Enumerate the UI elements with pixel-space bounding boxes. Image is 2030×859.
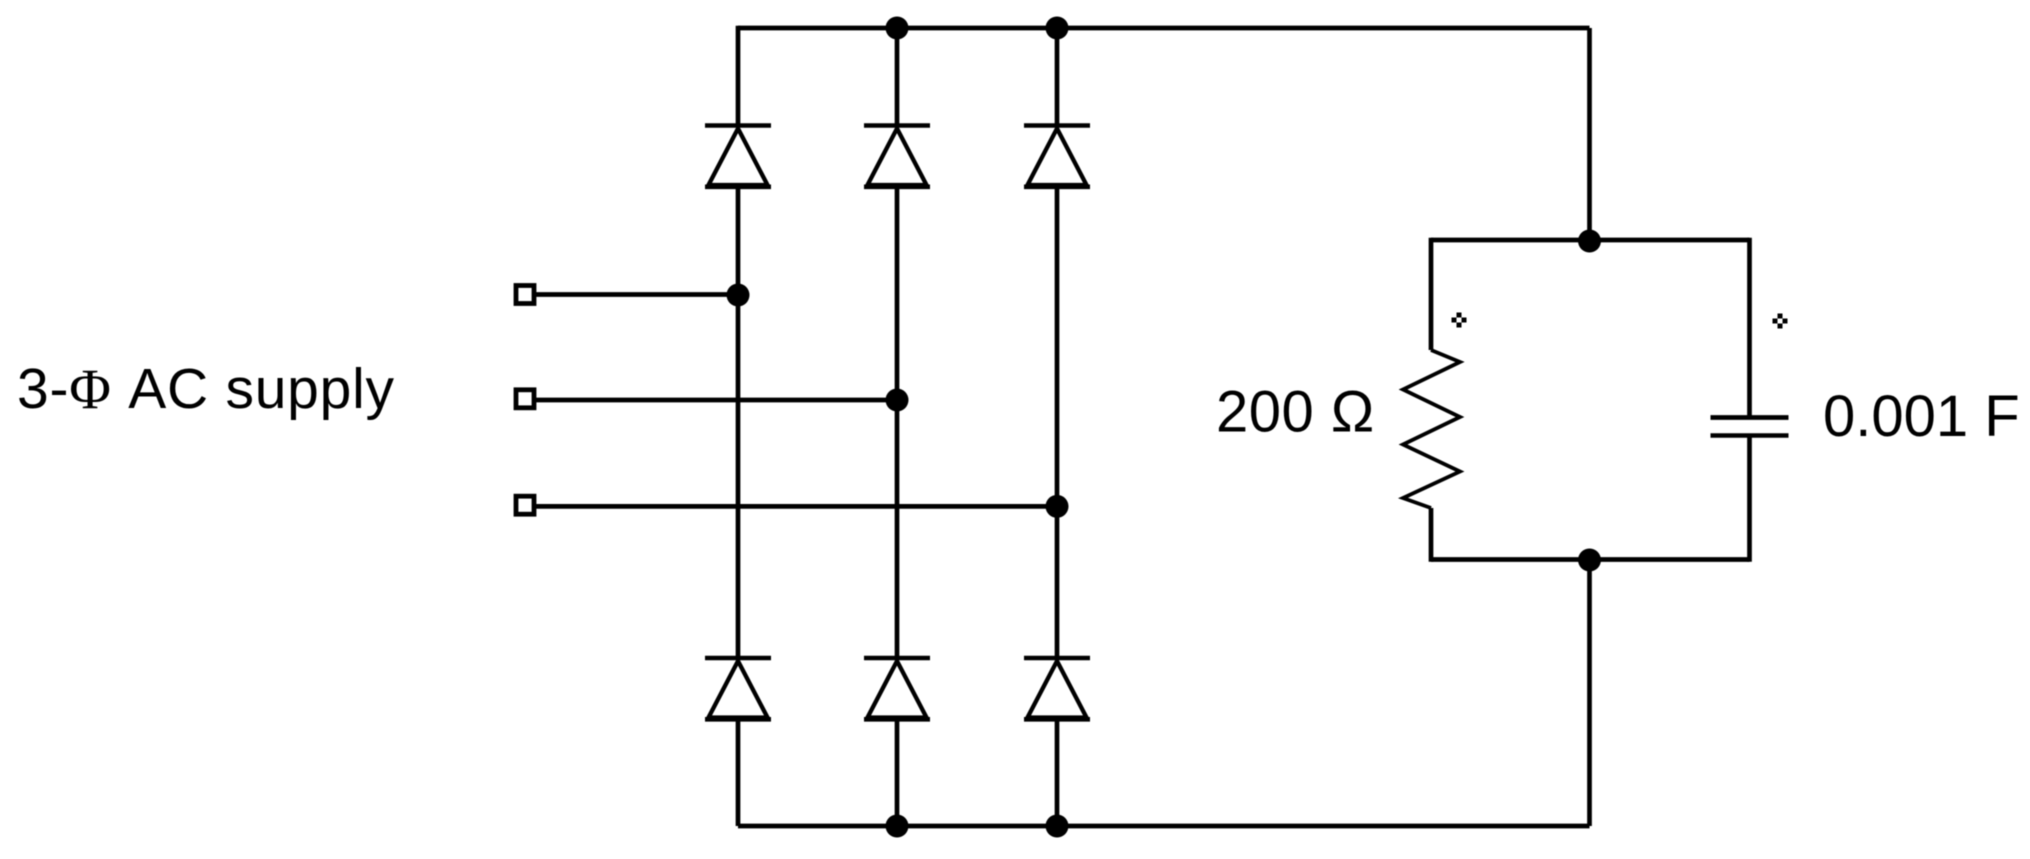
diode anode bar x738 bottom <box>705 717 771 722</box>
diode D4 triangle <box>709 661 768 718</box>
svg-text:0.001 F: 0.001 F <box>1823 384 2020 449</box>
junction top bus col3 <box>1046 17 1069 40</box>
diode D5 cathode bar <box>864 656 930 661</box>
junction phase B col2 <box>886 389 909 412</box>
wire column 3 lower segment <box>1055 720 1060 827</box>
wire phase B <box>536 398 897 403</box>
diode anode bar x1057 bottom <box>1024 717 1090 722</box>
wire resistor bottom lead <box>1429 508 1434 562</box>
wire column 2 middle segment <box>895 187 900 659</box>
wire column 3 upper segment <box>1055 28 1060 126</box>
diode anode bar x738 top <box>705 185 771 190</box>
junction bottom bus col3 <box>1046 815 1069 838</box>
svg-text:3-Φ AC supply: 3-Φ AC supply <box>17 357 395 421</box>
diode anode bar x897 bottom <box>864 717 930 722</box>
diode D3 cathode bar <box>1024 123 1090 128</box>
wire phase C <box>536 504 1057 509</box>
wire right vertical lower <box>1587 560 1592 826</box>
wire column 1 middle segment <box>736 187 741 659</box>
node marker capacitor <box>1773 314 1788 329</box>
diode D6 triangle <box>1028 661 1087 718</box>
svg-text:200 Ω: 200 Ω <box>1216 380 1375 445</box>
junction phase C col3 <box>1046 495 1069 518</box>
wire column 2 upper segment <box>895 28 900 126</box>
wire load box bottom <box>1431 557 1750 562</box>
diode D1 cathode bar <box>705 123 771 128</box>
wire column 1 upper segment <box>736 26 741 126</box>
wire capacitor bottom lead <box>1747 436 1752 562</box>
junction top bus col2 <box>886 17 909 40</box>
diode D1 triangle <box>709 129 768 186</box>
wire resistor top lead <box>1429 238 1434 350</box>
diode D3 triangle <box>1028 129 1087 186</box>
diode anode bar x897 top <box>864 185 930 190</box>
wire bottom bus <box>738 824 1590 829</box>
wire column 1 lower segment <box>736 720 741 827</box>
diode D6 cathode bar <box>1024 656 1090 661</box>
wire capacitor top lead <box>1747 238 1752 418</box>
diode D4 cathode bar <box>705 656 771 661</box>
wire top bus <box>738 26 1590 31</box>
capacitor plate bottom <box>1711 433 1789 438</box>
wire column 2 lower segment <box>895 720 900 827</box>
diode anode bar x1057 top <box>1024 185 1090 190</box>
terminal A <box>516 286 534 304</box>
resistor 200 ohm zigzag <box>1403 350 1460 508</box>
wire phase A <box>536 292 738 297</box>
capacitor plate top <box>1711 415 1789 420</box>
diode D2 cathode bar <box>864 123 930 128</box>
node marker resistor <box>1452 313 1467 328</box>
junction load top <box>1578 230 1601 253</box>
diode D2 triangle <box>868 129 927 186</box>
diode D5 triangle <box>868 661 927 718</box>
wire column 3 middle segment <box>1055 187 1060 659</box>
terminal B <box>516 390 534 408</box>
junction phase A col1 <box>727 284 750 307</box>
wire right vertical upper <box>1587 28 1592 241</box>
junction load bottom <box>1578 549 1601 572</box>
junction bottom bus col2 <box>886 815 909 838</box>
wire load box top <box>1431 238 1750 243</box>
terminal C <box>516 496 534 514</box>
